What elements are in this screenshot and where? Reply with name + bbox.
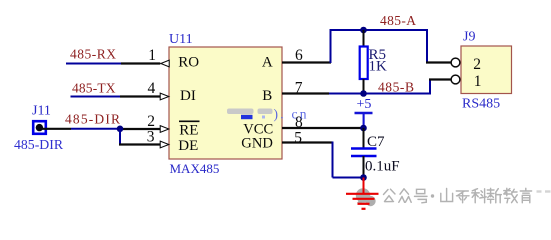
resistor R5 body <box>360 47 368 80</box>
connector J9 body <box>461 46 512 94</box>
net label 485-DIR (red, on wire) <box>65 112 120 127</box>
svg-text:RS485: RS485 <box>462 97 500 112</box>
svg-text:GND: GND <box>241 136 273 152</box>
char xin <box>487 188 501 203</box>
wire 485-A down to J9 pin 2 (blue vertical) <box>426 29 428 63</box>
pin name VCC <box>243 122 273 138</box>
label J11 <box>32 104 51 119</box>
pin number 4 <box>148 80 156 97</box>
wire junction to pin 2 (black) <box>120 128 160 130</box>
svg-text:A: A <box>262 54 273 70</box>
wire 485-B up to J9 pin 1 (blue vertical) <box>429 80 431 95</box>
pin number 3 <box>147 129 155 146</box>
J9 pin 1 circle <box>451 75 460 84</box>
label MAX485 <box>170 161 220 176</box>
watermark chinese text (hand drawn strokes) <box>384 188 532 203</box>
power +5 label <box>357 97 372 112</box>
label C7 <box>367 134 385 150</box>
watermark blur patch grey 1 <box>227 109 254 115</box>
char jiao <box>504 188 517 202</box>
char zhong <box>399 189 411 203</box>
capacitor C7 top lead <box>363 128 365 148</box>
svg-text:+5: +5 <box>357 97 372 112</box>
char hao <box>415 189 428 203</box>
junction at R5 bottom <box>360 90 367 97</box>
svg-text:485-B: 485-B <box>378 79 414 94</box>
pin name RE (active low, overline) <box>179 121 200 138</box>
wire stub to J9 pin 1 (black) <box>429 78 451 80</box>
char gong <box>384 189 396 202</box>
junction at VCC wire <box>360 125 367 132</box>
pin name DI <box>180 88 196 104</box>
svg-text:C7: C7 <box>367 134 385 150</box>
watermark blur patch grey 2 <box>258 109 273 115</box>
svg-text:2: 2 <box>473 56 481 73</box>
pin name DE <box>178 138 198 154</box>
net label 485-DIR (blue, below J11) <box>14 137 64 152</box>
label R5 <box>369 47 387 63</box>
connector J11 <box>33 121 46 134</box>
pin name A <box>262 54 273 70</box>
wire pin 6 A (black stub) <box>282 61 331 63</box>
watermark remnant text ). cn <box>262 107 307 122</box>
wire 485-TX black segment to pin 4 <box>120 95 160 97</box>
svg-text:DE: DE <box>178 138 198 154</box>
pin 3 arrow (DE input) <box>160 141 169 148</box>
wire GND down (blue vertical) <box>332 142 334 178</box>
watermark logo (grey circles) <box>356 188 376 206</box>
svg-text:RE: RE <box>179 123 198 139</box>
svg-text:J11: J11 <box>32 104 51 119</box>
label U11 <box>169 32 193 47</box>
watermark blur patch blue <box>241 115 253 119</box>
wire 485-DIR blue segment <box>71 128 120 130</box>
net label 485-RX <box>70 46 116 61</box>
J9 pin 2 circle <box>451 58 460 67</box>
value 1K <box>369 58 388 74</box>
svg-text:1K: 1K <box>369 58 388 74</box>
wire 485-TX blue segment <box>71 96 121 98</box>
char yu <box>520 188 531 203</box>
wire 485-A horizontal (blue) <box>330 29 428 31</box>
svg-text:1: 1 <box>474 73 482 90</box>
IC U11 body <box>169 47 282 159</box>
svg-text:2: 2 <box>147 113 155 130</box>
capacitor C7 top plate <box>351 147 377 150</box>
watermark faint dash <box>537 190 551 192</box>
wire pin 8 VCC (black) <box>282 127 364 129</box>
pin number 7 <box>295 80 303 97</box>
svg-text:B: B <box>262 88 272 104</box>
wire 485-RX black segment to pin 1 <box>121 62 160 64</box>
pin number 5 <box>294 129 302 146</box>
pin 2 arrow (RE input) <box>160 126 169 133</box>
power +5 bar <box>355 112 373 114</box>
wire drop to DE (blue vertical) <box>119 129 121 145</box>
pin name B <box>262 88 272 104</box>
char shan <box>441 189 453 202</box>
svg-text:J9: J9 <box>463 30 475 45</box>
wire stub to J9 pin 2 (black) <box>426 61 451 63</box>
pin name RO <box>178 54 199 70</box>
svg-text:5: 5 <box>294 129 302 146</box>
char ke <box>472 189 486 203</box>
svg-text:0.1uF: 0.1uF <box>365 159 400 175</box>
svg-text:485-A: 485-A <box>380 13 416 28</box>
label RS485 <box>462 97 500 112</box>
svg-text:485-DIR: 485-DIR <box>14 137 64 152</box>
svg-text:485-TX: 485-TX <box>72 81 116 96</box>
power +5 stem <box>363 113 365 128</box>
J9 pin number 2 <box>473 56 481 73</box>
net label 485-TX <box>72 81 116 96</box>
pin 4 arrow (DI input) <box>160 93 169 100</box>
wire 485-RX blue segment <box>66 63 121 65</box>
svg-text:MAX485: MAX485 <box>170 161 220 176</box>
net label 485-B <box>378 79 414 94</box>
wire A up (blue vertical) <box>330 29 332 63</box>
wire pin 7 B (black stub) <box>282 92 329 94</box>
resistor R5 top lead <box>363 30 365 47</box>
wire to pin 3 (black) <box>119 143 160 145</box>
label J9 <box>463 30 475 45</box>
wire GND bottom horizontal (blue) <box>333 177 364 179</box>
ground symbol <box>346 178 379 209</box>
middle dot <box>431 194 434 197</box>
svg-text:3: 3 <box>147 129 155 146</box>
junction at ground node <box>360 174 367 181</box>
char dong <box>456 191 469 203</box>
capacitor C7 bottom lead <box>363 156 365 178</box>
pin number 1 <box>148 47 156 64</box>
wire 485-B horizontal (blue) <box>329 93 430 95</box>
svg-text:4: 4 <box>148 80 156 97</box>
svg-text:1: 1 <box>148 47 156 64</box>
value 0.1uF <box>365 159 400 175</box>
svg-text:485-RX: 485-RX <box>70 46 116 61</box>
capacitor C7 bottom plate <box>351 155 377 158</box>
junction at R5 top <box>360 27 367 34</box>
svg-text:RO: RO <box>178 54 199 70</box>
pin 1 arrow (RO output) <box>161 60 169 67</box>
svg-text:485-DIR: 485-DIR <box>65 112 120 127</box>
resistor R5 bottom lead <box>363 79 365 94</box>
svg-text:DI: DI <box>180 88 196 104</box>
junction on 485-DIR wire <box>117 126 124 133</box>
wire pin 5 GND (black stub) <box>282 141 333 143</box>
pin name GND <box>241 136 273 152</box>
svg-text:U11: U11 <box>169 32 193 47</box>
net label 485-A <box>380 13 416 28</box>
pin number 2 <box>147 113 155 130</box>
pin number 6 <box>295 47 303 64</box>
wire J11 to label (black) <box>42 128 71 130</box>
J9 pin number 1 <box>474 73 482 90</box>
pin number 8 <box>295 114 303 131</box>
